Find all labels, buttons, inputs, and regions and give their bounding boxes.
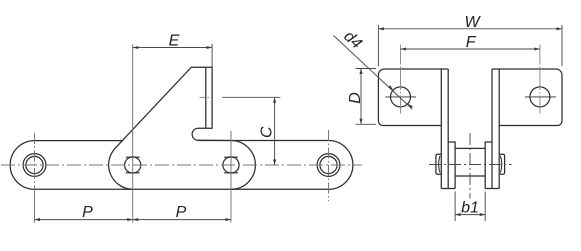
right hole vertical centerline / F extension <box>539 45 541 114</box>
pin 2 circle <box>125 157 141 173</box>
svg-text:D: D <box>347 92 364 104</box>
dimension P (left) <box>35 219 133 221</box>
hole in left wing <box>391 87 411 107</box>
svg-text:P: P <box>176 204 187 221</box>
pin end right <box>499 154 504 174</box>
roller 1 inner circle <box>26 156 43 173</box>
horizontal chain centerline <box>1 164 362 166</box>
vertical centerline roller 3 <box>230 131 232 223</box>
view vertical centerline <box>469 133 471 199</box>
bushing 3 ticks <box>224 157 238 173</box>
roller 1 outer circle <box>23 154 46 177</box>
roller 4 outer circle <box>317 154 340 177</box>
P extension line at roller 1 <box>34 190 36 223</box>
right leg inner edge <box>491 69 493 189</box>
attachment hole centerline through tab <box>200 96 214 98</box>
dimension W <box>378 25 562 66</box>
view horizontal centerline <box>429 164 512 166</box>
link plate right rounded end around roller 4 <box>329 141 353 190</box>
left bend line / leg outer edge <box>440 69 442 189</box>
attachment bent tab inner line <box>205 68 207 128</box>
centerlines, right view <box>429 133 512 199</box>
right wing flange plate <box>492 69 562 126</box>
link plate left rounded end around roller 1 <box>10 141 34 190</box>
left wing flange plate <box>378 69 448 126</box>
bushing 2 ticks <box>126 157 140 173</box>
dimension E <box>133 44 212 67</box>
chain bottom edge <box>35 188 329 190</box>
hole in right wing <box>530 87 550 107</box>
vertical centerline roller 4 <box>328 130 330 201</box>
svg-text:P: P <box>82 204 93 221</box>
svg-text:d4: d4 <box>340 28 365 53</box>
centerlines, left view <box>1 44 362 222</box>
svg-text:b1: b1 <box>461 199 479 216</box>
roller 4 inner circle <box>320 156 337 173</box>
dimension D <box>356 69 377 125</box>
attachment plate outline (gusset, tab, hook, end arcs) <box>109 67 256 189</box>
svg-text:W: W <box>464 14 481 31</box>
roller (front view) <box>455 148 485 176</box>
svg-text:C: C <box>258 126 275 138</box>
d4 arrowheads on hole <box>388 85 394 91</box>
dimension F <box>401 48 540 50</box>
svg-text:F: F <box>466 34 477 51</box>
left leg inner edge <box>447 69 449 189</box>
left hole vertical centerline / F extension <box>400 45 402 114</box>
pin end left <box>436 154 441 174</box>
link plate top edge (outer link 1-2) <box>35 140 123 142</box>
plate bottom edges <box>441 188 499 190</box>
leader line d4 <box>334 36 413 110</box>
vertical centerline / extension roller 2 <box>132 44 134 222</box>
dimension C <box>222 97 280 165</box>
dimension b1 <box>455 192 485 222</box>
right inner link plate <box>485 142 492 189</box>
left hole horizontal centerline <box>385 96 416 98</box>
left inner link plate <box>448 142 455 189</box>
right bend line / leg outer edge <box>498 69 500 189</box>
link plate top edge (link 3-4) and attachment seat <box>198 140 328 142</box>
vertical centerline roller 1 <box>34 133 36 190</box>
right hole horizontal centerline <box>525 96 556 98</box>
svg-text:E: E <box>169 33 180 50</box>
pin 3 circle <box>223 157 239 173</box>
dimension P (right) <box>133 219 231 221</box>
